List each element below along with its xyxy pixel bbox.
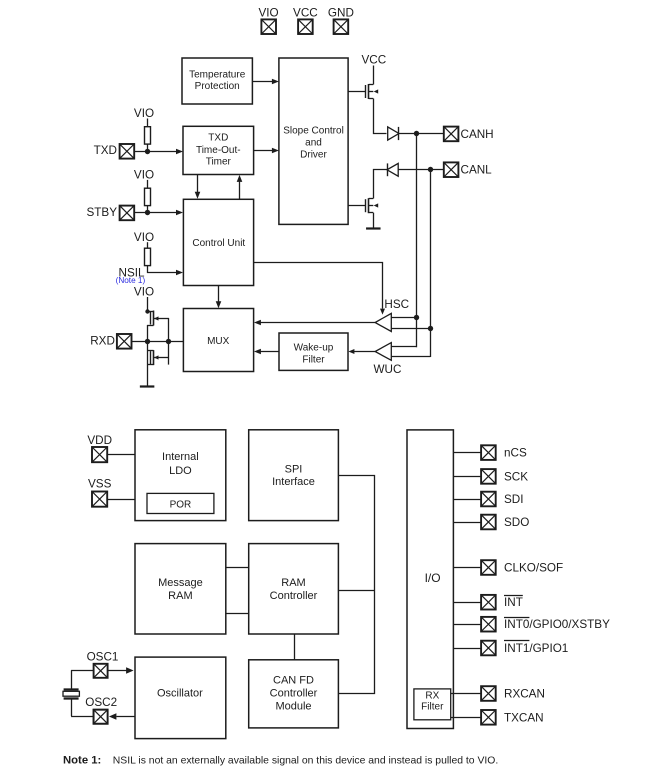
pin RXD <box>90 334 131 349</box>
svg-text:TXD: TXD <box>208 133 228 144</box>
wire Control Unit to HSC enable <box>254 263 386 315</box>
bus Message RAM to RAM Controller (upper) <box>226 567 249 569</box>
block Message RAM <box>135 544 226 634</box>
svg-text:SDI: SDI <box>504 493 523 506</box>
svg-text:SPI: SPI <box>285 463 303 475</box>
svg-text:Controller: Controller <box>270 590 318 602</box>
pin RXCAN <box>451 686 545 701</box>
wire Oscillator to OSC2 <box>71 713 135 719</box>
block RX Filter <box>414 689 451 720</box>
svg-text:Wake-up: Wake-up <box>294 342 334 353</box>
svg-text:Control Unit: Control Unit <box>192 238 245 249</box>
svg-text:Filter: Filter <box>421 702 444 713</box>
wire RXD driver left rail <box>147 325 149 386</box>
wire VSS to Internal LDO <box>107 499 135 501</box>
svg-text:VIO: VIO <box>134 169 154 182</box>
node WUC label <box>374 363 402 376</box>
svg-text:Driver: Driver <box>300 149 327 160</box>
wire low-side MOSFET to ground <box>373 213 375 229</box>
svg-text:CANL: CANL <box>461 164 493 177</box>
wire D2 to low-side MOSFET <box>374 170 388 199</box>
note reference (Note 1) <box>116 276 146 285</box>
pin STBY <box>86 206 134 221</box>
svg-text:WUC: WUC <box>374 363 402 376</box>
pin OSC2 box overdraw <box>94 710 108 724</box>
wire high-side MOSFET to diode D1 <box>374 99 387 134</box>
pullup resistor (NSIL) <box>145 242 151 273</box>
svg-text:RXCAN: RXCAN <box>504 688 545 701</box>
wire OSC1 to Oscillator <box>107 667 133 673</box>
block POR <box>147 493 214 513</box>
wire CANH rail to comparators <box>414 134 419 348</box>
transistor PMOS (RXD driver) <box>145 309 169 325</box>
block TXD Time-Out-Timer <box>183 126 254 174</box>
wire CANL input to HSC <box>391 328 430 330</box>
diode D2 (CANL) <box>387 163 398 176</box>
wire crystal to OSC1 <box>71 670 94 672</box>
pin CLKO/SOF <box>453 560 563 575</box>
wire Control Unit to Timer (up arrow) <box>237 175 243 199</box>
pullup VIO label (STBY) <box>134 169 154 182</box>
svg-text:INT1/GPIO1: INT1/GPIO1 <box>504 642 568 655</box>
wire Temperature Protection to Slope Control <box>252 79 279 85</box>
wire VDD to Internal LDO <box>107 454 135 456</box>
wire HSC to MUX <box>254 320 375 326</box>
wire Wake-up Filter to MUX <box>254 349 279 355</box>
svg-text:LDO: LDO <box>169 465 192 477</box>
bus Message RAM to RAM Controller (lower) <box>226 613 249 615</box>
svg-text:RXD: RXD <box>90 334 115 347</box>
wire CANL input to WUC <box>392 356 431 358</box>
wire VCC to high-side MOSFET <box>373 66 375 85</box>
pin CANH <box>444 127 494 142</box>
comparator WUC <box>375 343 391 361</box>
svg-text:Slope Control: Slope Control <box>283 126 344 137</box>
svg-text:INT: INT <box>504 596 523 609</box>
wire D2 to CANL pin <box>398 167 444 172</box>
pin SDI <box>453 492 523 507</box>
wire RXD driver output rail <box>168 318 170 365</box>
pin INT (active low) <box>453 595 522 610</box>
svg-text:RAM: RAM <box>281 577 305 589</box>
pin VCC (top supply) <box>293 6 318 34</box>
wire CANH input to WUC <box>392 346 417 348</box>
pullup VIO label (RXD) <box>134 285 154 298</box>
svg-text:SCK: SCK <box>504 470 528 483</box>
svg-text:Module: Module <box>275 701 311 713</box>
pin INT0/GPIO0/XSTBY (INT0 active low) <box>453 617 610 632</box>
svg-text:VCC: VCC <box>361 53 386 66</box>
block CAN FD Controller Module <box>249 660 339 728</box>
note 1 text <box>63 755 498 767</box>
svg-text:HSC: HSC <box>384 298 409 311</box>
svg-text:OSC1: OSC1 <box>87 650 119 663</box>
wire RAM Controller to CAN FD Controller <box>294 634 296 660</box>
block Internal LDO <box>135 430 226 521</box>
svg-text:OSC2: OSC2 <box>85 696 117 709</box>
svg-text:TXCAN: TXCAN <box>504 711 544 724</box>
svg-text:Note 1:: Note 1: <box>63 755 101 767</box>
svg-text:I/O: I/O <box>425 571 441 585</box>
wire RAM Controller to bus <box>338 590 374 592</box>
svg-text:and: and <box>305 137 322 148</box>
svg-text:NSIL is not an externally avai: NSIL is not an externally available sign… <box>113 756 498 767</box>
svg-text:RAM: RAM <box>168 590 192 602</box>
pin VIO (top supply) <box>259 6 279 34</box>
svg-text:VIO: VIO <box>259 6 279 19</box>
ground (driver) <box>366 227 381 229</box>
pin TXD <box>94 144 135 159</box>
pin OSC2 <box>85 696 117 724</box>
pin SDO <box>453 515 529 530</box>
svg-text:Oscillator: Oscillator <box>157 687 203 699</box>
transistor high-side PMOS (driver) <box>348 84 378 99</box>
block Oscillator <box>135 657 226 739</box>
svg-text:Controller: Controller <box>270 687 318 699</box>
wire Timer to Control Unit (down arrow) <box>195 175 201 199</box>
transistor NMOS (RXD driver) <box>147 350 169 365</box>
svg-text:Internal: Internal <box>162 451 199 463</box>
comparator HSC <box>375 313 391 331</box>
pullup resistor (TXD) <box>145 119 151 152</box>
crystal (OSC1/OSC2) <box>63 670 79 716</box>
svg-text:TXD: TXD <box>94 144 117 157</box>
svg-text:CANH: CANH <box>461 128 494 141</box>
svg-text:MUX: MUX <box>207 336 230 347</box>
wire Control Unit to MUX <box>216 286 222 309</box>
svg-text:nCS: nCS <box>504 447 527 460</box>
svg-text:STBY: STBY <box>86 206 117 219</box>
svg-text:VIO: VIO <box>134 231 154 244</box>
pullup resistor (STBY) <box>145 180 151 213</box>
svg-text:VIO: VIO <box>134 107 154 120</box>
wire D1 to CANH pin <box>399 131 444 136</box>
ground (RXD driver) <box>140 385 155 387</box>
pin TXCAN <box>451 710 544 725</box>
block SPI Interface <box>249 430 339 521</box>
wire CANH input to HSC <box>391 317 416 319</box>
wire RXD to MUX <box>132 339 184 344</box>
diode D1 (CANH) <box>388 127 399 140</box>
block Wake-up Filter <box>279 333 348 370</box>
svg-text:VDD: VDD <box>87 434 112 447</box>
wire CANL rail to comparators <box>428 170 433 357</box>
svg-text:Protection: Protection <box>195 81 240 92</box>
svg-text:Filter: Filter <box>302 354 325 365</box>
wire TXD to Timer <box>134 149 183 155</box>
wire STBY to Control Unit <box>134 210 183 216</box>
pin CANL <box>444 162 492 177</box>
svg-text:VSS: VSS <box>88 477 112 490</box>
svg-text:Interface: Interface <box>272 476 315 488</box>
block I/O <box>407 430 453 729</box>
transistor low-side NMOS (driver) <box>348 198 378 213</box>
block MUX <box>183 309 253 372</box>
pin GND (top supply) <box>328 6 354 34</box>
svg-text:GND: GND <box>328 6 354 19</box>
svg-text:CLKO/SOF: CLKO/SOF <box>504 562 563 575</box>
pin OSC1 <box>87 650 119 677</box>
wire VIO rail to RXD driver <box>147 297 149 312</box>
node NSIL label <box>119 266 145 279</box>
wire Timer to Slope Control <box>254 148 279 154</box>
block RAM Controller <box>249 544 339 634</box>
svg-text:Temperature: Temperature <box>189 69 246 80</box>
svg-text:RX: RX <box>425 691 439 702</box>
pullup VIO label (NSIL) <box>134 231 154 244</box>
svg-text:POR: POR <box>170 500 192 511</box>
block Control Unit <box>183 199 253 285</box>
pin SCK <box>453 469 528 484</box>
svg-text:VIO: VIO <box>134 285 154 298</box>
svg-text:SDO: SDO <box>504 516 529 529</box>
wire NSIL to Control Unit <box>147 270 183 276</box>
block Slope Control and Driver <box>279 58 348 224</box>
svg-text:Message: Message <box>158 577 203 589</box>
pin VDD <box>87 434 112 462</box>
bus SPI to CAN FD vertical <box>339 476 375 694</box>
pullup VIO label (TXD) <box>134 107 154 120</box>
svg-text:CAN FD: CAN FD <box>273 674 314 686</box>
pin nCS <box>453 445 527 460</box>
svg-text:VCC: VCC <box>293 6 318 19</box>
svg-text:Timer: Timer <box>206 157 232 168</box>
pin VSS <box>88 477 112 506</box>
svg-text:INT0/GPIO0/XSTBY: INT0/GPIO0/XSTBY <box>504 618 610 631</box>
block Temperature Protection <box>182 58 252 104</box>
svg-text:(Note 1): (Note 1) <box>116 276 146 285</box>
svg-text:Time-Out-: Time-Out- <box>196 145 241 156</box>
pin INT1/GPIO1 (INT1 active low) <box>453 641 568 656</box>
supply VCC label (driver) <box>361 53 386 66</box>
wire WUC to Wake-up Filter <box>348 349 375 354</box>
node HSC label <box>384 298 409 311</box>
